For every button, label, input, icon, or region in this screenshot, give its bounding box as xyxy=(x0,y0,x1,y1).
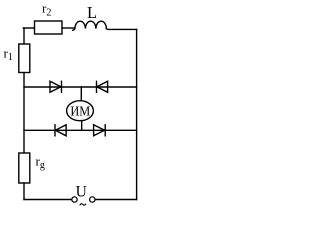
tilde AC mark xyxy=(80,204,86,206)
diode VD1 xyxy=(50,81,62,92)
wire stub motor bottom xyxy=(81,121,83,131)
diode VD3 xyxy=(55,125,66,136)
inductor L xyxy=(73,21,107,30)
terminal left xyxy=(72,197,77,202)
wire right vertical xyxy=(136,29,138,199)
resistor rg xyxy=(19,153,30,183)
resistor r2 xyxy=(35,21,63,34)
diode VD2 xyxy=(97,81,108,92)
wire left vertical lower xyxy=(23,183,25,200)
wire left vertical upper xyxy=(23,28,25,44)
wire bottom diode row xyxy=(24,129,137,131)
wire r2 to inductor xyxy=(62,27,74,29)
wire stub motor top xyxy=(80,87,82,101)
wire bottom right xyxy=(95,199,136,201)
resistor r1 xyxy=(19,44,30,73)
wire left vertical mid xyxy=(23,73,25,154)
svg-text:L: L xyxy=(87,3,97,22)
svg-text:ИМ: ИМ xyxy=(70,103,90,119)
terminal right xyxy=(90,197,95,202)
wire inductor to top-right corner xyxy=(106,28,136,31)
diode VD4 xyxy=(94,125,106,136)
wire bottom left xyxy=(24,199,72,201)
wire top diode row xyxy=(24,86,137,88)
svg-text:U: U xyxy=(76,184,87,201)
wire top-left horizontal xyxy=(23,27,34,29)
motor ИМ circle xyxy=(67,101,94,121)
